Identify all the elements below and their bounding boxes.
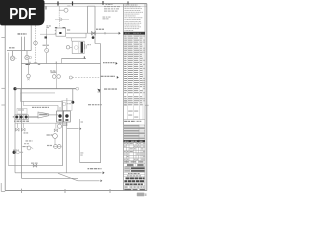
wire S1 to valve run (66, 30, 86, 34)
company row 1 (124, 167, 146, 170)
bottom wire 1 with inline valve (9, 89, 63, 168)
table footer note (124, 121, 141, 122)
starter box A (15, 115, 19, 120)
secondary pipe (20, 89, 55, 93)
watermark below sheet (137, 193, 147, 197)
starter label row (14, 121, 29, 122)
terminal marks right of M1 (85, 44, 91, 49)
long riser x22 (20, 51, 22, 179)
equipment list table grid (124, 35, 146, 120)
revision table grid (124, 142, 146, 163)
big box top-left corner (88, 6, 96, 33)
inline symbol on faint line (55, 18, 69, 28)
border zone tick marks (1, 1, 148, 193)
equipment list header bar (124, 32, 146, 35)
feed drop with junction dot (71, 89, 74, 104)
left cluster bus (13, 116, 38, 118)
sheet border frame (0, 4, 147, 192)
general notes text block (125, 5, 144, 31)
coil block dark (45, 29, 48, 49)
junction dot left with tag (13, 150, 24, 154)
discharge header line (15, 122, 67, 124)
approval signatures row (125, 163, 144, 166)
check instrument circle below pumps (57, 124, 66, 128)
project row (124, 172, 146, 174)
drawing subtitle dark (124, 183, 146, 185)
pump suction header upper (20, 93, 62, 101)
line B short header (62, 56, 87, 63)
drawing title line 1 (124, 177, 146, 179)
hanging instrument below valve-2 (27, 74, 31, 80)
bottom wire 2 with off-page arrow (15, 168, 105, 174)
strainer funnel (38, 112, 58, 118)
notes text top-right (104, 4, 120, 12)
pipe run to right with valve V3 (86, 29, 121, 35)
pump feed risers (60, 98, 67, 111)
motor box M1 with dark core bar (72, 41, 84, 53)
signal line A with off-page arrow (21, 62, 117, 65)
riser x79 (80, 119, 84, 163)
label stack near riser x22 (24, 132, 33, 141)
gauge circle G1 (43, 45, 50, 64)
svg-text:PDF: PDF (9, 6, 36, 23)
dashed signal to off-page arrow (69, 76, 118, 79)
label text mid (50, 70, 55, 73)
equipment list table rows (124, 36, 145, 118)
big box bottom (80, 162, 101, 164)
materials stripe block (124, 125, 145, 140)
instrument circle E (23, 143, 34, 150)
instrument circle F with tag (47, 134, 58, 145)
instrument signal dashed line (34, 26, 40, 66)
label near riser x100 (88, 104, 102, 105)
feed tank box above pumps (62, 101, 72, 111)
bottom wire 3 (21, 177, 78, 179)
solenoid lead (40, 25, 56, 34)
pump discharge drops (60, 122, 67, 126)
instrument circle left of M1 (66, 46, 72, 49)
instrument bubble I-1 (59, 6, 70, 20)
PDF badge (0, 0, 45, 25)
isolation valves under left cluster (16, 123, 25, 131)
wire L-line header (7, 25, 31, 50)
instrument pair on drop (52, 64, 61, 89)
corner arrow connector D (97, 88, 117, 92)
discharge line with arrow (67, 127, 81, 130)
revision table entries (124, 143, 144, 162)
valve pair G (47, 145, 62, 149)
starter box B (19, 115, 24, 120)
pump P1 (57, 111, 64, 122)
label under valve-2 (26, 64, 30, 65)
drawing title line 2 (124, 180, 144, 182)
connector stubs below top border (45, 6, 46, 9)
skid outline box (17, 109, 27, 115)
wire M1 top feed (66, 33, 86, 41)
wire valve-2 drop (28, 60, 30, 75)
valve CV-1 (10, 51, 16, 61)
valve CV-2 (25, 51, 32, 60)
drawing number strip (124, 186, 146, 189)
riser x61.5 long (62, 101, 64, 165)
valve V3 body (92, 32, 96, 35)
main header pipe (9, 53, 79, 91)
long riser x100 (95, 44, 101, 164)
node CV label (18, 33, 27, 35)
diagonal leader and arrow line (58, 173, 102, 182)
drain dot below V3 (92, 35, 95, 39)
riser x66 to bottom wire (65, 122, 67, 173)
pump P2 (63, 111, 70, 122)
company row 2 (124, 170, 146, 173)
riser x95 (94, 6, 96, 43)
revision header bar (124, 140, 146, 142)
right column frame (124, 4, 146, 191)
riser x15 long (14, 90, 16, 173)
small note mid-right (103, 17, 111, 20)
isolation valves under right cluster (54, 123, 57, 132)
sheet number row (124, 189, 145, 190)
starter box C (24, 115, 29, 120)
subtitle row (124, 175, 146, 177)
wire CV risers (21, 37, 24, 51)
contact block S1 (55, 28, 66, 37)
pump suction header lower (23, 101, 58, 111)
